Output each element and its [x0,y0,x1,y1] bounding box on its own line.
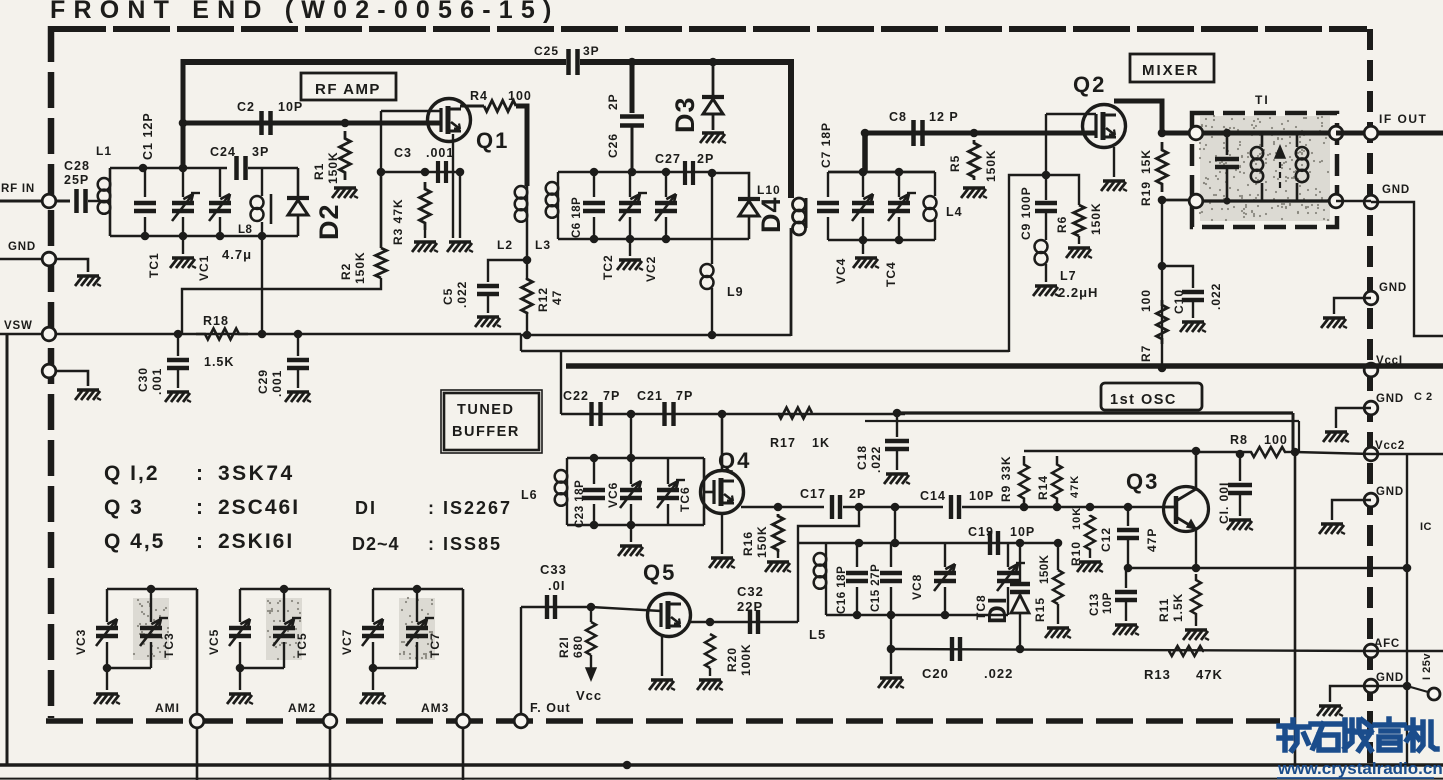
ground R1 [334,186,356,189]
svg-text:VC6: VC6 [606,482,620,508]
svg-text:R16: R16 [741,531,755,556]
ground VC5 [239,668,241,690]
inductor L1 [109,168,112,236]
svg-text:C9 100P: C9 100P [1019,186,1033,240]
T1 secondary winding [1296,133,1299,147]
ground R20 [709,668,711,676]
node R20 [706,618,715,627]
svg-text:C2: C2 [237,100,255,114]
wire RF IN to C28 [55,200,70,203]
svg-text:C17: C17 [800,487,826,501]
svg-text:150K: 150K [1089,202,1103,235]
svg-text:DI: DI [982,596,1012,624]
svg-text:10P: 10P [969,489,994,503]
wire Q3 emitter [1195,529,1197,568]
svg-text:1K: 1K [812,436,830,450]
wire AMI bank top [107,588,197,591]
capacitor C25 [566,49,571,75]
svg-text:150K: 150K [984,149,998,182]
arrow to Vcc [590,655,592,672]
wire R4 to L2 [516,106,527,186]
wire drain to T1 [1162,131,1192,136]
wire Q5 source [661,634,663,676]
wire R2 to VSW riser [182,278,381,334]
wire emitter row [1126,567,1407,569]
svg-text:DI: DI [355,498,377,518]
svg-text:100: 100 [1139,289,1153,312]
svg-text:L7: L7 [1060,269,1077,283]
svg-text:Q5: Q5 [643,560,676,585]
wire C33 to Q5 [558,606,591,608]
svg-text:3P: 3P [252,145,269,159]
svg-text:47: 47 [550,290,564,305]
svg-text:VC8: VC8 [910,574,924,600]
trimmer TC8 [1007,543,1009,567]
wire AMI below [196,727,199,780]
svg-text:D3: D3 [670,96,700,133]
svg-text:BUFFER: BUFFER [452,424,520,440]
svg-text:R2: R2 [339,263,353,280]
svg-text:TI: TI [1255,93,1270,107]
svg-text:C30: C30 [136,367,150,392]
capacitor C14 [949,495,953,519]
capacitor C23 [593,458,595,484]
wire Q2 source [1113,147,1115,177]
svg-text:R3 47K: R3 47K [391,198,405,245]
ground R15 [1057,604,1059,624]
trimmer TC7 [416,589,418,622]
svg-text:100K: 100K [739,643,753,676]
svg-text:47P: 47P [1145,528,1159,552]
svg-text:.022: .022 [455,281,469,308]
ground L7 [1035,284,1057,287]
svg-text:.022: .022 [869,446,883,473]
svg-text:: IS2267: : IS2267 [428,498,512,518]
trimmer TC4 [898,172,900,197]
svg-text:D2~4: D2~4 [352,534,400,554]
wire tank4 top [828,171,935,174]
wire R12 to VSW [526,314,528,335]
ground R10 [1089,550,1091,558]
wire C15 riser [894,507,896,543]
svg-text:C33: C33 [540,562,567,577]
svg-text:47K: 47K [1069,475,1081,498]
svg-text:IF OUT: IF OUT [1379,112,1427,126]
wire C24 to L8/D2 [248,167,298,170]
wire C3 row [381,171,460,173]
svg-text:Q I,2: Q I,2 [104,462,160,485]
wire VSW rail right [521,334,791,337]
ground VC7 [372,668,374,690]
wire Q2 G2 [1046,113,1096,115]
wire GND4 stub [1332,500,1371,520]
capacitor C21 [662,402,666,426]
ground TC2 [629,239,631,256]
wire C21 node drop [630,414,632,458]
svg-text:C20: C20 [922,666,949,681]
svg-text:C26: C26 [606,133,620,158]
TUNED BUFFER label box [444,393,539,450]
svg-text:TUNED: TUNED [457,402,514,418]
node R18 left [174,330,183,339]
ground GND2 [1323,316,1345,319]
svg-text:47K: 47K [1196,667,1223,682]
shading near TC5 [266,598,302,660]
svg-text::: : [196,530,205,553]
svg-text:150K: 150K [326,151,340,184]
node R8 out [1291,448,1300,457]
node L2 bottom [523,256,532,265]
svg-text:10P: 10P [1102,592,1114,614]
resistor R11 [1191,574,1201,620]
wire C8 line thick [863,131,1096,136]
svg-text:C14: C14 [920,489,946,503]
ground C18 [886,472,908,475]
svg-text:AFC: AFC [1374,638,1400,650]
wire AM2 below [329,727,332,780]
wire GND5 stub [1330,686,1371,702]
capacitor C20 [950,637,954,661]
svg-text:R2I: R2I [557,636,571,658]
wire AM3 bank top [373,588,463,591]
node C9 [1042,171,1051,180]
wire C27 to D4 [712,173,749,197]
wire Q3 collector [1195,451,1198,489]
ground R11 [1195,620,1197,626]
wire AM3 bank right [462,589,465,715]
capacitor C7 [827,172,829,197]
inductor L10 [793,198,806,211]
transistor Q1 dual-gate MOSFET [428,99,471,142]
variable cap VC4 [862,172,864,197]
svg-text:TC7: TC7 [428,632,442,658]
inductor L6 [566,458,568,470]
wire C9 node right [1046,175,1079,205]
svg-text:L8: L8 [238,224,253,236]
resistor R3 [420,182,431,230]
svg-text:C21: C21 [637,389,663,403]
svg-text:: ISS85: : ISS85 [428,534,502,554]
svg-text:IC: IC [1420,521,1432,533]
wire GND stub [55,259,88,272]
wire C22/C21/R17 line [561,413,905,416]
svg-text:RF AMP: RF AMP [315,81,381,98]
svg-text:22P: 22P [737,599,763,614]
ground D3 [702,131,724,134]
ground lower stub [77,388,99,391]
svg-text:15K: 15K [1139,149,1153,174]
wire right vertical 1407 [1406,454,1408,765]
wire C3 right down [459,172,461,238]
svg-text:R5: R5 [948,155,962,172]
svg-text:R15: R15 [1033,597,1047,622]
svg-text:C3: C3 [394,146,412,160]
svg-text:C29: C29 [256,369,270,394]
ground GND3 [1325,430,1347,433]
svg-text:.001: .001 [426,146,454,160]
variable cap VC5 [239,589,241,622]
wire Q1 G2 [381,110,441,112]
wire R9/R14 top rail [1024,450,1196,452]
svg-text:TC2: TC2 [601,254,615,280]
ground tank1 [182,236,184,254]
wire G2 drop to C9 node [1045,114,1047,175]
svg-text:AM3: AM3 [421,701,449,715]
transformer T1 box dashed [1192,113,1337,227]
T1 capacitor [1223,129,1232,138]
ground R3 [424,230,426,238]
capacitor C17 [830,495,834,519]
ground R6 [1078,236,1080,244]
transistor Q4 [701,471,744,514]
svg-text:C32: C32 [737,584,764,599]
T1 coupling arrow [1279,152,1281,188]
resistor R20 [705,634,715,668]
node D1 top [1016,539,1025,548]
svg-text:150K: 150K [353,251,367,284]
node R7 on Vcc1 bus [1158,364,1167,373]
wire Vcc1 bus thick [566,363,1443,369]
wire C5 branch [488,260,527,282]
capacitor C8 [911,120,916,146]
wire tank2 bottom [558,238,749,241]
node C21 junction [627,410,636,419]
svg-text:C5: C5 [441,288,455,305]
svg-text:3P: 3P [583,44,600,58]
svg-text:C18: C18 [855,445,869,470]
node R5 [970,129,979,138]
svg-text:VC2: VC2 [644,256,658,282]
svg-text:R1: R1 [312,163,326,180]
trimmer TC3 [150,589,152,622]
svg-text:1.5K: 1.5K [204,355,234,369]
svg-text:Q 3: Q 3 [104,496,144,519]
capacitor C18 [896,413,898,437]
wire Q4 gate [704,491,714,494]
transformer T1 shading [1200,116,1330,221]
trimmer TC2 [629,172,631,197]
node C10 branch [1158,262,1167,271]
variable cap VC7 [372,589,374,622]
svg-text:10P: 10P [278,100,303,114]
resistor R10 [1085,515,1095,550]
wire VSW rail [55,333,521,336]
svg-text:.001: .001 [150,368,164,395]
wire rail drop left [181,59,186,168]
wire top rail right of C25 [580,59,793,65]
wire thin bus [521,350,1009,352]
ground VC4 [862,240,864,254]
terminal AFC [1364,644,1378,658]
inductor L8 [261,168,263,196]
wire Q1 gate line [183,121,441,126]
svg-text:C8: C8 [889,110,907,124]
terminal GND 4 [1364,493,1378,507]
svg-text:GND: GND [1379,282,1407,294]
wire Q4 source [721,513,723,554]
svg-text:C10: C10 [1172,289,1186,314]
junction on bottom frame [623,761,632,770]
svg-text:Q 4,5: Q 4,5 [104,530,165,553]
resistor R16 [773,514,784,552]
shading near TC7 [399,598,435,660]
capacitor C11 [1239,454,1241,481]
svg-text:R18: R18 [203,314,229,328]
wire C9 node left [1009,175,1046,352]
svg-text:R4: R4 [470,89,488,103]
wire tank1 top [110,167,227,170]
trimmer TC1 [182,168,184,197]
wire T1 bottom to GND [1336,200,1371,203]
svg-text:.001: .001 [270,370,284,397]
ground C3/Q1 source [449,240,471,243]
wire R19 down to R7 [1161,200,1163,366]
resistor R4 [484,101,516,112]
svg-text:680: 680 [571,635,585,658]
svg-text:GND: GND [1376,393,1404,405]
ground C10 [1182,320,1204,323]
svg-text:10P: 10P [1010,525,1035,539]
resistor R21 [590,607,592,622]
trimmer TC6 [667,458,669,484]
watermark CJK [1279,720,1309,750]
wire AM3 bank bottom [373,667,417,669]
svg-text:4.7μ: 4.7μ [222,247,252,262]
inductor L5 [825,543,827,553]
terminal GND IF [1364,195,1378,209]
resistor R7 [1157,300,1168,344]
capacitor C12 [1127,507,1129,526]
outer frame left solid [6,334,9,766]
svg-text:TC5: TC5 [295,632,309,658]
inductor L7 [1045,211,1047,240]
ground C11 [1229,518,1251,521]
svg-text:L6: L6 [521,488,538,502]
capacitor C10 [1182,290,1204,294]
border bottom dashed [46,718,1280,724]
ground Q2 source [1103,179,1125,182]
capacitor C30 [177,334,179,356]
svg-text:R6: R6 [1055,216,1069,233]
svg-text:RF IN: RF IN [1,183,35,195]
node -25V branch [1403,682,1412,691]
wire Q4 out [741,506,824,509]
wire thin bus drop to C22 [560,351,562,414]
svg-text:F. Out: F. Out [530,701,571,715]
svg-text:C22: C22 [563,389,589,403]
border right dashed [1367,29,1373,764]
wire L10 down to VSW rail [790,228,793,336]
svg-text:2P: 2P [849,487,866,501]
diode D4 [738,197,760,201]
svg-text:Q3: Q3 [1126,469,1159,494]
resistor R18 [196,329,248,340]
terminal Vcc2 [1364,447,1378,461]
svg-text:R17: R17 [770,436,796,450]
capacitor C9 [1045,175,1047,200]
svg-text:CI. 00I: CI. 00I [1217,482,1231,524]
svg-text:VC4: VC4 [834,258,848,284]
wire C28 to tank [88,200,110,203]
inductor L3 [557,172,559,182]
capacitor C24 [234,156,239,180]
svg-text:Q2: Q2 [1073,72,1106,97]
wire tank5 bottom [826,614,1008,617]
wire Q4 drain [721,414,724,471]
svg-text:GND: GND [1376,486,1404,498]
svg-text:L3: L3 [535,238,551,252]
svg-text:FRONT END (W02-0056-15): FRONT END (W02-0056-15) [50,0,560,24]
T1 primary winding [1261,133,1264,147]
wire VSW drop to thin bus [520,334,522,351]
wire tank2 top [558,171,712,174]
svg-text:VC1: VC1 [197,255,211,281]
svg-text:C7 18P: C7 18P [819,122,833,168]
svg-text:C25: C25 [534,44,559,58]
ground Q5 [651,678,673,681]
wire tank3 top [567,457,704,460]
diode D2 [297,168,300,196]
svg-text:C1 12P: C1 12P [141,112,155,160]
node C20 left [887,645,896,654]
capacitor C27 [683,161,687,185]
svg-text:10K: 10K [1071,507,1083,530]
svg-text:C12: C12 [1099,527,1113,552]
capacitor C32 [748,610,752,634]
terminal GND 2 [1364,291,1378,305]
svg-text:C23 18P: C23 18P [574,480,586,528]
transistor Q2 dual-gate MOSFET [1083,105,1126,148]
label 1st OSC box [1101,383,1202,410]
capacitor C3 [436,161,440,183]
resistor R14 [1052,456,1062,507]
resistor R2 [380,172,382,248]
svg-text:L5: L5 [809,627,826,642]
border top dashed [49,26,1367,32]
node C20 right [1016,645,1025,654]
wire rail drop to L10 [788,59,794,198]
wire tank1 bottom [110,235,298,238]
svg-text:MIXER: MIXER [1142,62,1200,79]
node C27 out [708,169,717,178]
node C18 [893,409,902,418]
wire osc feed lower [865,420,1299,422]
resistor R1 [340,131,351,180]
ground C13 [1115,623,1137,626]
svg-text::: : [196,462,205,485]
svg-text:R20: R20 [725,647,739,672]
svg-text:Vcc2: Vcc2 [1375,440,1405,452]
inductor L2 [515,186,528,199]
wire L8 bottom to VSW [261,222,263,334]
svg-text:TC4: TC4 [884,261,898,287]
wire C14 to Q3 [962,506,1164,509]
ground tank3 [630,525,632,542]
resistor R15 [1057,543,1059,570]
svg-text:L4: L4 [946,205,963,219]
terminal GND 5 [1364,679,1378,693]
wire AM2 bank right [329,589,332,715]
wire thick drop C7/C8 [862,130,868,172]
svg-text:12 P: 12 P [929,110,959,124]
svg-text:C24: C24 [210,145,236,159]
ground R5 [963,186,985,189]
capacitor C19 [988,531,992,555]
svg-text:D2: D2 [314,203,344,240]
svg-text:VC7: VC7 [340,629,354,655]
capacitor C13 [1125,568,1127,588]
svg-text:25P: 25P [64,173,89,187]
